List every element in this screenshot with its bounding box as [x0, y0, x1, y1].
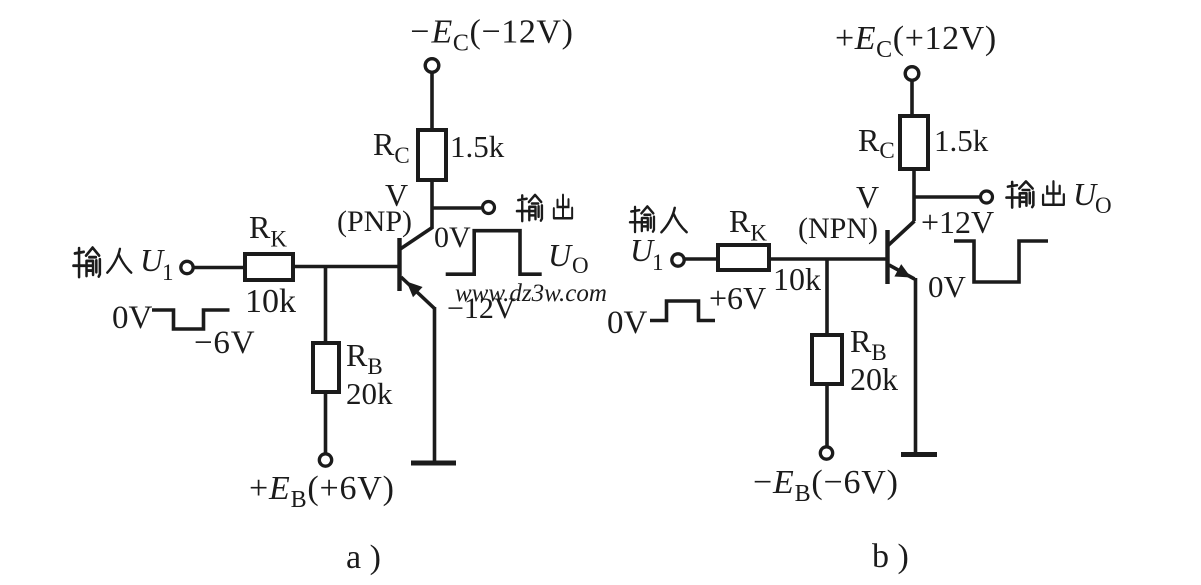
resistor RB (b) — [812, 335, 842, 384]
svg-text:O: O — [572, 253, 589, 278]
NPN emitter arrow — [894, 264, 911, 277]
caption b) — [872, 538, 909, 575]
input level label 0V (b) — [607, 305, 648, 341]
terminal +EC — [905, 67, 919, 81]
resistor RC (b) — [900, 116, 928, 169]
base bar (a) — [397, 238, 401, 291]
output level label 0V (b) — [928, 269, 967, 304]
output terminal (a) — [483, 202, 495, 214]
value 20k (a) — [346, 376, 393, 411]
svg-text:+6V: +6V — [709, 280, 766, 316]
wire RC to collector — [430, 180, 434, 228]
wire supply to RC (b) — [910, 81, 914, 117]
emitter wire to ground (a) — [433, 307, 437, 462]
terminal -EC — [425, 59, 439, 73]
svg-text:−EC(−12V): −EC(−12V) — [408, 14, 574, 57]
value 1.5k (b) — [934, 123, 989, 158]
output waveform (b) — [954, 241, 1048, 282]
watermark www.dz3w.com — [455, 280, 607, 307]
input wire (b) — [685, 257, 718, 261]
emitter diagonal (b) — [889, 265, 915, 279]
output terminal (b) — [981, 191, 993, 203]
input level label -6V (a) — [194, 325, 255, 361]
ground (b) — [901, 452, 937, 457]
wire collector node to output terminal — [432, 206, 481, 210]
label shu-ru (input) U1 (b) — [630, 206, 687, 275]
value 10k (a) — [245, 283, 296, 320]
value 1.5k (a) — [450, 129, 505, 164]
ground (a) — [411, 461, 456, 466]
base bar (b) — [885, 230, 889, 284]
supply label +EB(+6V) — [249, 470, 395, 513]
svg-text:−6V: −6V — [194, 325, 255, 361]
svg-text:−EB(−6V): −EB(−6V) — [753, 464, 899, 507]
value 20k (b) — [850, 361, 898, 397]
terminal +EB (a) — [319, 454, 331, 466]
supply label +EC(+12V) — [835, 20, 997, 63]
resistor RK (b) — [718, 245, 769, 270]
output label UO (a) — [548, 237, 589, 278]
svg-text:0V: 0V — [434, 221, 471, 254]
collector diagonal (b) — [888, 221, 915, 246]
label RC (a) — [373, 126, 410, 168]
svg-text:+12V: +12V — [921, 204, 994, 240]
emitter wire to ground (b) — [914, 278, 918, 453]
label RC (b) — [858, 122, 895, 163]
wire base node to RB (b) — [825, 259, 829, 335]
label shu-ru (input) U1 (a) — [73, 242, 173, 285]
svg-text:+EB(+6V): +EB(+6V) — [249, 470, 395, 513]
supply label -EB(-6V) — [753, 464, 899, 507]
svg-text:1: 1 — [162, 260, 174, 285]
svg-text:(PNP): (PNP) — [337, 205, 412, 238]
collector diagonal (a) — [400, 227, 434, 250]
input level label 0V (a) — [112, 300, 153, 336]
transistor V (PNP) designator — [385, 177, 408, 213]
input terminal (b) — [672, 254, 684, 266]
svg-text:20k: 20k — [346, 376, 393, 411]
svg-text:0V: 0V — [607, 305, 648, 341]
caption a) — [346, 539, 381, 576]
svg-text:0V: 0V — [928, 269, 967, 304]
value 10k (b) — [773, 261, 821, 297]
output level label 0V (a) — [434, 221, 471, 254]
wire RB to EB terminal (a) — [324, 392, 328, 454]
resistor RK (a) — [245, 254, 293, 280]
svg-text:10k: 10k — [245, 283, 296, 320]
transistor V (NPN) designator — [856, 179, 879, 215]
transistor type label (PNP) — [337, 205, 412, 238]
transistor type label (NPN) — [798, 212, 878, 245]
svg-text:b ): b ) — [872, 538, 909, 575]
svg-text:0V: 0V — [112, 300, 153, 336]
svg-text:O: O — [1095, 193, 1112, 218]
supply label -EC(-12V) — [408, 14, 574, 57]
wire collector node to output terminal (b) — [914, 195, 980, 199]
output waveform (a) — [446, 231, 542, 275]
svg-text:1.5k: 1.5k — [934, 123, 989, 158]
resistor RC (a) — [418, 130, 446, 180]
svg-text:U: U — [548, 237, 573, 273]
svg-text:a ): a ) — [346, 539, 381, 576]
svg-text:1.5k: 1.5k — [450, 129, 505, 164]
terminal -EB (b) — [820, 447, 832, 459]
emitter diagonal (a) — [401, 277, 435, 309]
label RB (a) — [346, 337, 383, 379]
svg-text:10k: 10k — [773, 261, 821, 297]
svg-text:(NPN): (NPN) — [798, 212, 878, 245]
resistor RB (a) — [313, 343, 339, 392]
input waveform (a) — [152, 310, 230, 329]
svg-text:20k: 20k — [850, 361, 898, 397]
PNP emitter arrow — [407, 282, 423, 298]
label RK (a) — [249, 209, 287, 252]
label shu-chu (output) (a) — [517, 195, 572, 221]
input wire (a) — [194, 266, 245, 270]
wire RC to collector (b) — [912, 169, 916, 221]
wire RB to EB terminal (b) — [825, 384, 829, 447]
label RB (b) — [850, 323, 887, 365]
node label +12V at collector (b) — [921, 204, 994, 240]
base wire (b) — [769, 257, 886, 261]
svg-text:+EC(+12V): +EC(+12V) — [835, 20, 997, 63]
svg-text:V: V — [856, 179, 879, 215]
input terminal (a) — [181, 261, 193, 273]
svg-text:1: 1 — [652, 250, 664, 275]
output level label -12V (a) — [447, 292, 516, 325]
svg-text:www.dz3w.com: www.dz3w.com — [455, 280, 607, 307]
label shu-chu (output) UO (b) — [1006, 176, 1111, 218]
base wire (a) — [293, 265, 398, 269]
input waveform (b) — [650, 301, 715, 321]
wire supply to RC — [430, 73, 434, 131]
wire base node to RB (a) — [324, 266, 328, 343]
input level label +6V (b) — [709, 280, 766, 316]
label RK (b) — [729, 203, 767, 246]
